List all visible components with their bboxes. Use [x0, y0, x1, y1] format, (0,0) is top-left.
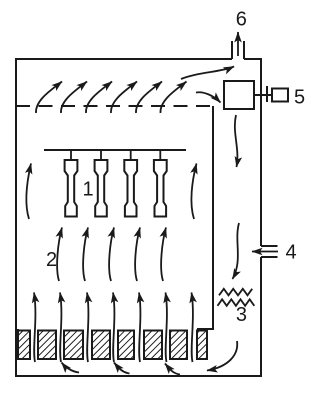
svg-text:3: 3 — [236, 304, 247, 326]
svg-text:4: 4 — [285, 242, 296, 264]
svg-text:2: 2 — [46, 249, 57, 271]
svg-text:5: 5 — [294, 87, 305, 109]
svg-text:6: 6 — [236, 9, 247, 31]
svg-text:1: 1 — [82, 178, 93, 200]
